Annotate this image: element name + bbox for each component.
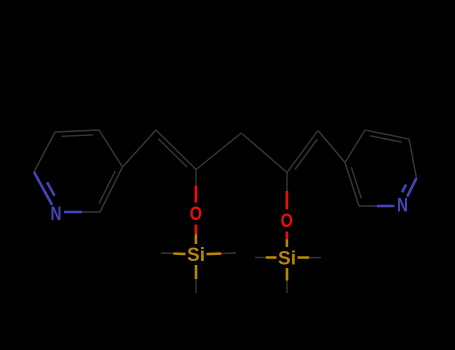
- bond Si-CH3 right methyl (left Si): [207, 252, 222, 255]
- bond C2=C3 left ring: [100, 167, 123, 212]
- bond C-CH2 left: [196, 133, 241, 170]
- bond C6-C5 right ring: [409, 139, 417, 178]
- bond N=C6 left ring: [34, 172, 52, 205]
- bond C4=C5 left ring: [55, 130, 99, 132]
- svg-text:Si: Si: [187, 245, 205, 266]
- double bond inner C=CH right: [295, 139, 317, 169]
- bond O-Si right: [285, 232, 288, 240]
- bond C3-C4 left ring: [99, 130, 123, 167]
- bond Si-CH3 down methyl (right Si): [286, 268, 289, 281]
- double bond inner CH=C left: [158, 139, 187, 167]
- svg-text:Si: Si: [278, 249, 296, 270]
- bond Si-CH3 down methyl (left Si): [195, 265, 198, 279]
- svg-text:O: O: [190, 204, 202, 225]
- double bond inner N=C6 right: [402, 185, 406, 193]
- double bond inner N=C6: [47, 182, 54, 196]
- bond N=C6 right ring: [407, 178, 416, 197]
- bond N-C2 left ring: [64, 211, 82, 214]
- svg-text:O: O: [281, 211, 293, 232]
- bond C=CH enol right: [287, 131, 318, 173]
- bond CH2-C right: [241, 133, 287, 173]
- bond C5-C6 left ring: [34, 132, 55, 172]
- double bond inner C3=C2 right: [351, 167, 361, 198]
- svg-text:N: N: [397, 196, 408, 217]
- double bond inner C5=C4 right: [370, 136, 402, 142]
- bond Si-CH3 left methyl (right Si): [266, 256, 277, 259]
- svg-text:N: N: [51, 204, 62, 225]
- bond CH=C enol left: [156, 130, 196, 170]
- bond C-O left: [195, 170, 197, 187]
- bond C4-C3 right ring: [345, 130, 365, 163]
- bond Si-CH3 left methyl (left Si): [173, 252, 185, 255]
- bond Si-CH3 right methyl (right Si): [298, 256, 310, 259]
- bond C2-N right ring: [359, 205, 377, 207]
- bond C-O right: [286, 173, 288, 192]
- double bond inner C2=C3: [99, 171, 115, 203]
- double bond inner C4=C5: [61, 135, 93, 136]
- bond C3-CH vinyl left: [123, 130, 157, 167]
- bond CH-C3 vinyl right: [318, 131, 345, 163]
- bond O-Si left: [195, 225, 198, 235]
- bond C3-C2 right ring: [345, 163, 359, 207]
- bond C5=C4 right ring: [365, 130, 409, 139]
